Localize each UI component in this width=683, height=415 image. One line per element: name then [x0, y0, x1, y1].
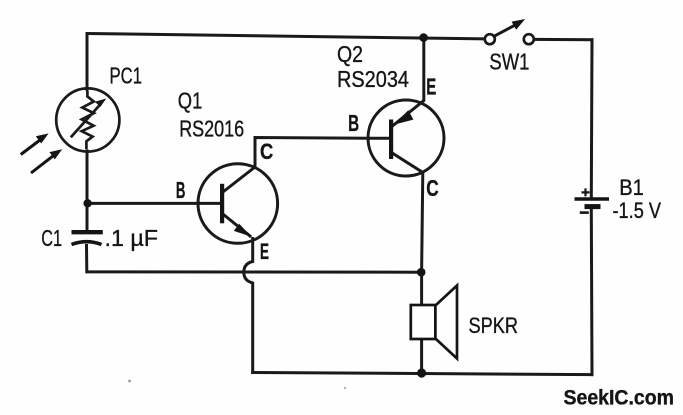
svg-text:-1.5 V: -1.5 V: [613, 198, 662, 223]
svg-text:RS2034: RS2034: [337, 66, 409, 92]
svg-text:E: E: [260, 239, 269, 264]
svg-text:E: E: [426, 74, 436, 100]
svg-text:B: B: [176, 177, 186, 203]
svg-text:C: C: [426, 175, 438, 201]
svg-text:C1: C1: [41, 225, 62, 251]
svg-text:PC1: PC1: [110, 62, 143, 88]
svg-text:SeekIC.com: SeekIC.com: [564, 385, 675, 409]
svg-text:SW1: SW1: [489, 48, 529, 74]
svg-text:SPKR: SPKR: [469, 313, 519, 338]
svg-text:.1 µF: .1 µF: [105, 225, 159, 251]
svg-text:B1: B1: [619, 175, 644, 200]
svg-text:B: B: [348, 110, 359, 136]
svg-text:Q2: Q2: [337, 41, 363, 67]
svg-text:Q1: Q1: [178, 87, 203, 113]
svg-text:RS2016: RS2016: [179, 115, 244, 141]
svg-text:C: C: [260, 139, 273, 164]
